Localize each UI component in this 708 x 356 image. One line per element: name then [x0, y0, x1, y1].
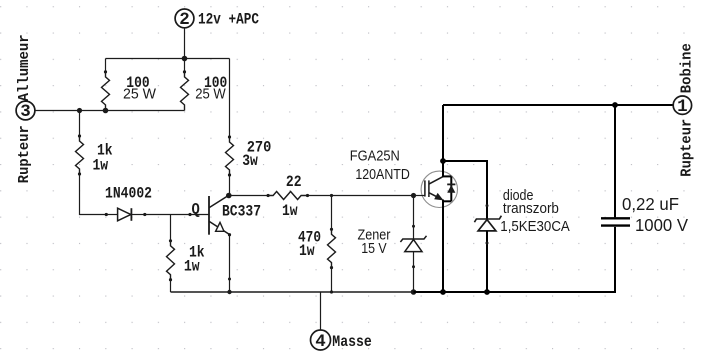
svg-text:Rupteur: Rupteur [15, 125, 33, 183]
resistor R6 22 1w [267, 192, 310, 200]
svg-text:25 W: 25 W [123, 87, 156, 103]
svg-text:Allumeur: Allumeur [15, 34, 33, 101]
svg-text:Q: Q [192, 201, 200, 219]
node emitter pin dot [228, 278, 231, 281]
terminal 4 (Masse) [311, 330, 331, 352]
svg-text:25 W: 25 W [195, 87, 226, 103]
node capacitor junction [612, 102, 618, 108]
node collector junction [226, 193, 232, 199]
IGBT U1 body circle [421, 171, 457, 207]
terminal 2 (12v +APC) [175, 9, 194, 30]
wire junction over to transzorb top [443, 161, 487, 219]
terminal 1 (Rupteur Bobine) [673, 96, 691, 117]
node R7 rail pin [330, 290, 333, 293]
ground rail thin left part [171, 291, 414, 293]
svg-text:3: 3 [20, 102, 31, 122]
IGBT gate bar [424, 180, 426, 196]
svg-text:1000 V: 1000 V [635, 215, 688, 235]
wire junction down to R2 top [184, 59, 186, 73]
resistor R4 1k 1w [76, 134, 84, 175]
node junction to R4 [77, 108, 82, 113]
wire branch down to R7 [331, 196, 333, 230]
wire R6 to gate node [308, 195, 414, 197]
wire top HV rail to terminal 1 [443, 104, 673, 106]
wire rail down to terminal 4 [320, 292, 322, 330]
svg-text:3w: 3w [242, 152, 258, 170]
svg-text:1,5KE30CA: 1,5KE30CA [500, 219, 570, 235]
wire terminal 3 to resistor bottoms [35, 110, 185, 112]
resistor R5 1k 1w [167, 239, 175, 281]
wire diode cathode to transistor base [145, 214, 209, 216]
node emitter rail junction [227, 290, 231, 294]
svg-text:4: 4 [315, 332, 326, 352]
svg-text:0,22 uF: 0,22 uF [622, 194, 679, 214]
wire left end down to R1 top [105, 59, 107, 73]
resistor R1 100 25W [102, 70, 110, 113]
svg-text:Bobine: Bobine [678, 43, 696, 93]
node gate junction [411, 193, 416, 198]
IGBT channel bar [428, 180, 430, 197]
capacitor C1 0,22uF 1000V [601, 105, 630, 292]
node junction at 12V rail [182, 56, 188, 62]
wire IGBT emitter down to rail [442, 200, 444, 293]
ground rail thick right part [414, 291, 617, 293]
wire IGBT collector up to HV rail [442, 105, 444, 177]
IGBT emitter diagonal with arrow [429, 193, 443, 200]
wire branch down to R5 [170, 215, 172, 241]
svg-text:transzorb: transzorb [503, 201, 559, 217]
IGBT internal diode [443, 176, 455, 201]
svg-text:FGA25N: FGA25N [350, 148, 400, 164]
svg-text:22: 22 [286, 173, 302, 191]
node transzorb rail junction [484, 289, 490, 295]
svg-text:120ANTD: 120ANTD [355, 167, 409, 183]
svg-text:1w: 1w [184, 257, 200, 275]
svg-text:Rupteur: Rupteur [678, 119, 696, 177]
diode D2 Zener 15V [400, 196, 426, 293]
wire junction down to R4 [79, 111, 81, 137]
svg-text:1w: 1w [299, 242, 315, 260]
resistor R2 100 25W [181, 70, 189, 110]
diode D1 1N4002 [105, 208, 147, 221]
wire collector node to R6 [229, 195, 268, 197]
wire R7 bottom to ground rail [331, 268, 333, 292]
wire R5 bottom to ground rail [170, 280, 172, 292]
wire R3 bottom to collector node [229, 175, 231, 196]
resistor R7 470 1w [328, 228, 336, 270]
svg-text:2: 2 [179, 10, 190, 30]
svg-text:1w: 1w [93, 157, 109, 175]
svg-text:15 V: 15 V [361, 241, 387, 257]
wire terminal 2 down to 12V rail [184, 28, 186, 59]
wire 12V rail horizontal [106, 58, 230, 60]
node collector junction to transzorb [440, 158, 446, 164]
svg-text:1: 1 [677, 97, 688, 117]
node branch to R7 [330, 194, 333, 197]
terminal 3 (Rupteur Allumeur) [16, 101, 35, 122]
node base pin dot [188, 213, 191, 216]
node emitter rail junction [440, 289, 446, 295]
IGBT collector diagonal [429, 176, 443, 184]
transistor Q1 BC337 [209, 195, 231, 236]
IGBT gate lead [414, 195, 425, 197]
svg-text:12v +APC: 12v +APC [198, 11, 259, 29]
svg-text:1w: 1w [282, 202, 298, 220]
svg-text:1N4002: 1N4002 [105, 185, 152, 203]
wire emitter down to ground rail [229, 235, 231, 292]
diode D3 transzorb 1,5KE30CA [474, 204, 501, 292]
node zener rail junction [411, 289, 417, 295]
svg-text:Masse: Masse [332, 333, 372, 351]
resistor R3 270 3w [226, 135, 234, 176]
svg-text:BC337: BC337 [222, 202, 261, 220]
wire right end down to R3 top [229, 59, 231, 138]
wire R4 bottom to diode anode [80, 174, 107, 215]
